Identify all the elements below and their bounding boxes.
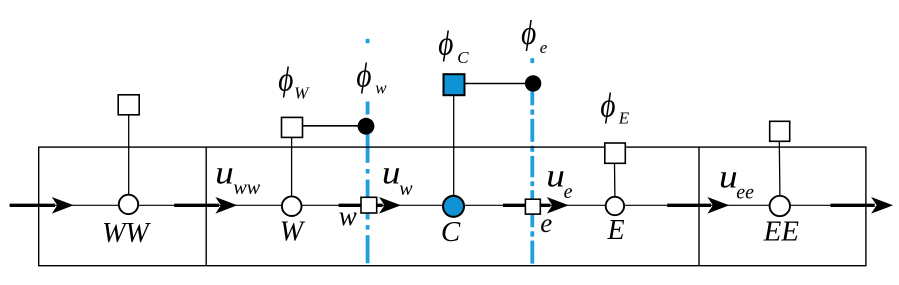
stem above WW <box>128 115 130 195</box>
cell border right (E|EE) <box>698 147 700 266</box>
svg-text:u: u <box>719 159 738 196</box>
svg-text:ϕ: ϕ <box>521 14 536 52</box>
svg-text:ww: ww <box>233 177 260 199</box>
node WW <box>119 195 138 214</box>
node C (filled blue) <box>443 196 464 217</box>
marker square phi_W <box>282 117 303 137</box>
svg-text:W: W <box>280 217 306 248</box>
svg-text:w: w <box>339 201 357 231</box>
cell border left (WW|W) <box>205 147 207 266</box>
svg-text:ϕ: ϕ <box>600 87 615 125</box>
arrow u_e <box>503 197 569 214</box>
marker square phi_C (filled blue) <box>444 74 465 95</box>
svg-text:ϕ: ϕ <box>278 60 293 98</box>
svg-text:ϕ: ϕ <box>356 56 371 94</box>
arrow u_ww <box>174 197 237 214</box>
control volume outline <box>39 147 866 266</box>
stem above EE <box>778 141 781 196</box>
svg-text:w: w <box>399 178 413 200</box>
arrow u_w <box>339 197 401 214</box>
svg-text:C: C <box>457 48 469 67</box>
face line e (cyan dash-dot segments) <box>530 58 534 263</box>
svg-text:W: W <box>294 84 310 103</box>
marker square phi_E <box>605 143 626 163</box>
svg-text:C: C <box>441 216 461 248</box>
svg-text:EE: EE <box>763 215 800 247</box>
arrow outlet <box>831 197 894 214</box>
node W <box>282 196 302 216</box>
marker square above WW <box>118 95 139 115</box>
link phi_C square to dot <box>464 83 533 85</box>
svg-text:u: u <box>382 155 401 192</box>
svg-text:E: E <box>607 215 625 246</box>
svg-text:ϕ: ϕ <box>438 24 453 62</box>
node EE <box>770 196 790 216</box>
svg-text:WW: WW <box>102 218 151 249</box>
stem above E <box>614 163 616 197</box>
arrow inlet <box>10 197 74 214</box>
svg-text:e: e <box>564 181 573 203</box>
stem above C <box>453 95 455 196</box>
face line w (cyan dash-dot segments) <box>366 39 370 263</box>
marker square above EE <box>770 121 790 141</box>
svg-text:u: u <box>215 155 234 192</box>
arrow u_ee <box>667 197 729 214</box>
black dot at e line <box>525 75 541 91</box>
face square e <box>525 199 540 214</box>
svg-text:ee: ee <box>736 182 754 204</box>
svg-text:u: u <box>546 158 565 195</box>
black dot at w line <box>358 118 375 135</box>
face square w <box>361 197 377 213</box>
svg-text:e: e <box>540 38 548 57</box>
stem above W <box>291 137 293 196</box>
svg-text:E: E <box>618 108 630 127</box>
center flow line <box>39 204 866 206</box>
svg-text:e: e <box>540 208 552 238</box>
svg-text:w: w <box>375 79 387 98</box>
node E <box>606 197 624 215</box>
link phi_W square to dot <box>302 125 366 127</box>
